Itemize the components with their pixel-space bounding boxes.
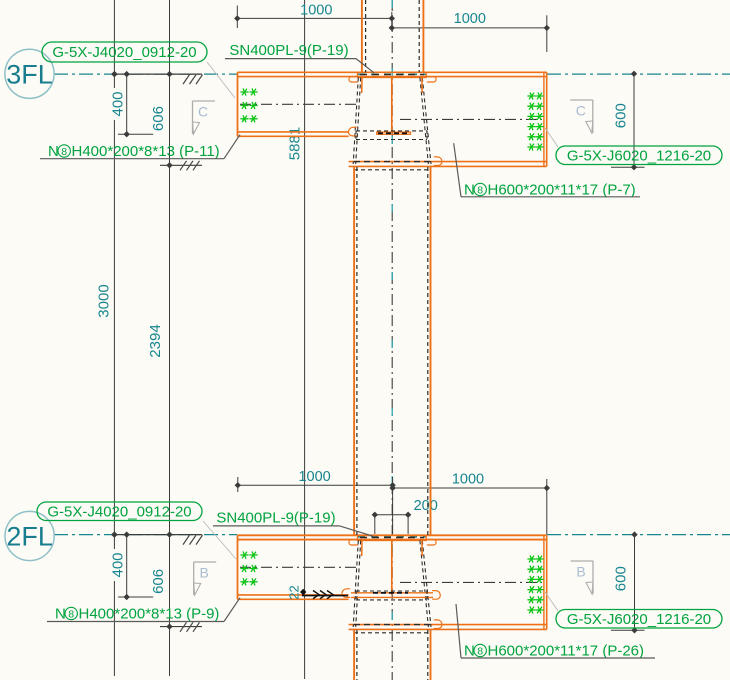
leader to girder 3FL left [207,62,235,98]
dim line 5881 vertical (x=304.6) [304,0,306,679]
dimension 1000 top-left [236,6,238,29]
svg-text:200: 200 [414,498,438,514]
3FL column taper hidden lines left [353,78,358,165]
3FL weld access ear bottom-right [434,157,442,166]
svg-text:600: 600 [613,566,630,591]
3FL weld access ear mid-left [349,127,357,136]
svg-text:606: 606 [150,106,167,131]
svg-text:400: 400 [110,552,127,577]
column above 3FL flanges [361,0,363,72]
svg-text:H600*200*11*17 (P-7): H600*200*11*17 (P-7) [488,182,636,199]
svg-text:C: C [198,104,208,120]
svg-text:8: 8 [68,608,74,620]
svg-text:H400*200*8*13 (P-9): H400*200*8*13 (P-9) [79,606,220,623]
3FL right girder H600 end plate [543,72,545,166]
svg-text:N: N [464,643,475,660]
2FL right girder H600 end plate [543,535,545,629]
section mark B left [193,562,195,595]
column below 2FL flanges [353,630,355,680]
svg-text:600: 600 [613,103,630,128]
3FL black overlay segment [113,73,202,75]
2FL H600 level hidden dashes [354,624,430,626]
extension line x=546.8 top [546,15,548,52]
girder mark G-5X-J4020 3FL [42,42,207,62]
3FL left girder H400 bottom flange [237,131,348,133]
section mark C left [192,101,194,134]
svg-text:2FL: 2FL [6,522,53,552]
svg-text:3FL: 3FL [6,59,53,89]
3FL cut hatch upper [183,75,190,85]
3FL column taper hidden lines right [422,78,431,165]
2FL weld access ear mid-left [342,589,350,598]
3FL cut hatch lower [180,161,187,171]
svg-text:606: 606 [150,569,167,594]
svg-text:N: N [55,606,66,623]
2FL black overlay segment [113,534,202,536]
3FL right girder web centerline [400,118,542,120]
girder mark G-5X-J4020 2FL [37,502,202,521]
2FL right girder web centerline [400,581,542,583]
2FL through diaphragm top plate [358,535,427,540]
2FL column flange stubs [361,541,363,557]
2FL level bubble [5,511,54,560]
splice bolts 2FL right girder [528,556,535,562]
field weld chevrons 2FL [302,595,348,597]
2FL column taper hidden lines right [422,541,431,628]
2FL column taper hidden lines left [353,541,358,628]
2FL SN400 plate at H400 level [351,592,433,594]
dimension 1000 top-right [392,27,547,29]
3FL left girder H400 top flange [237,71,547,73]
dimension 1000 2FL-right [392,477,394,534]
3FL node diamonds [111,71,117,77]
svg-text:G-5X-J6020_1216-20: G-5X-J6020_1216-20 [567,147,711,164]
svg-text:8: 8 [477,184,483,196]
column above 3FL hidden lines [365,0,367,72]
leader to girder 3FL right [545,128,558,147]
dimension 600 at 3FL [633,74,635,167]
svg-text:1000: 1000 [298,469,330,485]
3FL column flange stubs [361,78,363,94]
svg-text:C: C [576,103,586,119]
2FL cut hatch lower [180,622,187,632]
extension line x=546.8 at 2FL [546,479,548,535]
2FL weld access ear top-left [349,540,358,545]
column centerline (dash-dot) [391,0,393,680]
svg-text:8: 8 [61,146,67,158]
svg-text:N: N [464,182,475,199]
column 2FL-3FL hidden lines [356,167,358,535]
svg-text:400: 400 [110,91,127,116]
3FL level line (teal dash-dot) [54,73,237,75]
3FL level bubble [5,49,54,98]
svg-text:1000: 1000 [300,3,332,19]
svg-text:22: 22 [287,585,302,599]
dimension 600 at 2FL [634,535,636,631]
3FL left girder H400 end plate [237,72,239,136]
section mark B right [592,561,594,594]
splice bolts 3FL left girder [241,89,248,95]
girder mark G-5X-J6020 3FL [556,146,722,165]
2FL level line (teal dash-dot) [54,534,237,536]
2FL left girder web centerline [240,566,356,568]
leader to girder 2FL left [203,521,236,559]
3FL weld access ear top-right [427,77,436,82]
2FL weld access ear bottom-right [434,620,442,629]
svg-text:B: B [200,565,209,581]
dim line 606/2394 vertical (x=169.5) [169,0,171,676]
3FL H400 diaphragm hidden outline [356,130,427,132]
2FL left girder H400 end plate [237,535,239,599]
3FL left girder web centerline [240,103,356,105]
3FL H400 level diaphragm [377,132,411,134]
column 2FL-3FL flanges [353,167,355,536]
dim line 3000 vertical (x=114.4) with text-mask gaps [113,0,115,88]
dimension 400 at 2FL [126,535,128,597]
3FL weld access ear top-left [349,77,358,82]
splice bolts 2FL left girder [241,552,248,558]
3FL beam-bottom node line [160,164,202,166]
2FL beam web through column [391,541,393,595]
section mark C right [592,100,594,133]
2FL left girder H400 bottom flange [237,594,348,596]
svg-text:3000: 3000 [96,284,113,317]
leader to girder 2FL right [545,592,558,611]
svg-text:1000: 1000 [452,471,484,487]
dimension 400 at 3FL [126,74,128,134]
svg-text:G-5X-J4020_0912-20: G-5X-J4020_0912-20 [47,503,191,520]
svg-text:N: N [48,143,59,160]
svg-text:2394: 2394 [147,324,164,357]
2FL weld access ear top-right [427,540,436,545]
3FL H600 level hidden dashes [354,161,430,163]
svg-text:SN400PL-9(P-19): SN400PL-9(P-19) [216,510,335,527]
3FL right girder H600 bottom flange [349,161,547,163]
2FL cut hatch upper [183,535,190,545]
2FL left girder H400 top flange [237,534,547,536]
svg-text:SN400PL-9(P-19): SN400PL-9(P-19) [229,42,348,59]
2FL node diamonds [111,531,117,537]
2FL weld access ear mid-right [432,591,440,600]
svg-text:8: 8 [477,645,483,657]
svg-text:H600*200*11*17 (P-26): H600*200*11*17 (P-26) [488,643,645,660]
svg-text:G-5X-J6020_1216-20: G-5X-J6020_1216-20 [567,611,711,628]
dimension 200 2FL [375,514,408,516]
3FL through diaphragm top plate [358,72,427,77]
2FL right girder H600 bottom flange [349,624,547,626]
2FL H400 diaphragm hidden outline [356,590,427,592]
dimension 1000 2FL-left [237,477,239,492]
column below 2FL hidden lines [356,630,358,680]
3FL beam web through column [391,78,393,132]
2FL beam-bottom node line [160,626,202,628]
svg-text:1000: 1000 [454,11,486,27]
svg-text:G-5X-J4020_0912-20: G-5X-J4020_0912-20 [52,44,196,61]
girder mark G-5X-J6020 2FL [556,610,722,629]
svg-text:B: B [576,564,585,580]
splice bolts 3FL right girder [528,93,535,99]
svg-text:H400*200*8*13 (P-11): H400*200*8*13 (P-11) [72,143,220,160]
